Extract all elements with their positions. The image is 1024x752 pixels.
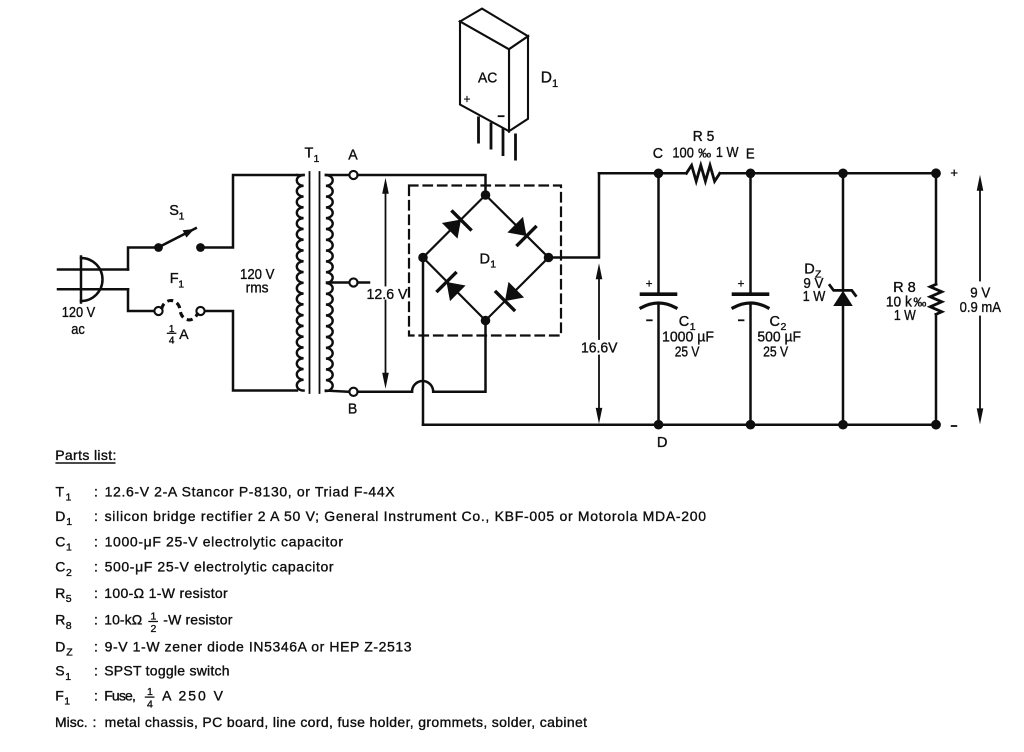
svg-text:25 V: 25 V (675, 344, 700, 361)
svg-text:F: F (55, 687, 64, 703)
svg-text:4: 4 (169, 335, 175, 346)
svg-text:D: D (55, 638, 65, 654)
svg-text:12.6 V: 12.6 V (367, 286, 409, 303)
svg-text::: : (94, 484, 98, 500)
svg-text:500-μF 25-V electrolytic capac: 500-μF 25-V electrolytic capacitor (105, 559, 334, 575)
svg-text::: : (94, 612, 98, 628)
fuse F1 (154, 301, 204, 320)
svg-text:1: 1 (151, 611, 157, 623)
svg-text:silicon bridge rectifier 2 A 5: silicon bridge rectifier 2 A 50 V; Gener… (105, 508, 707, 524)
svg-text:1 W: 1 W (716, 144, 739, 161)
svg-text:1: 1 (552, 78, 558, 90)
svg-text:1: 1 (64, 696, 70, 708)
wire bridge left node to bottom rail (422, 258, 425, 425)
svg-text:Misc.: Misc. (55, 714, 88, 730)
svg-text:ac: ac (71, 321, 85, 338)
svg-text::: : (94, 663, 98, 679)
diode D1d bottom-right (496, 282, 524, 310)
node D dot (654, 420, 664, 430)
zener diode Dz (830, 173, 856, 424)
svg-text:E: E (746, 147, 755, 163)
node C (654, 169, 664, 179)
parts list (55, 447, 706, 730)
wire B to hop (358, 391, 412, 394)
svg-text:25 V: 25 V (763, 344, 789, 361)
svg-text:R: R (55, 612, 65, 628)
svg-text:R: R (55, 585, 65, 601)
diode D1c bottom-left (438, 273, 466, 301)
svg-text:C: C (653, 146, 663, 162)
transformer T1 primary coil (297, 175, 304, 391)
node top of R8 (931, 168, 941, 178)
resistor R5 (686, 165, 719, 181)
svg-text:AC: AC (478, 70, 497, 87)
svg-text:12.6-V 2-A Stancor P-8130, or: 12.6-V 2-A Stancor P-8130, or Triad F-44… (105, 484, 396, 500)
svg-text:1: 1 (65, 671, 71, 683)
svg-text:1000-μF 25-V electrolytic capa: 1000-μF 25-V electrolytic capacitor (105, 533, 344, 549)
center tap (327, 281, 349, 284)
svg-text:+: + (950, 165, 958, 180)
svg-text:Fuse,: Fuse, (104, 687, 136, 703)
svg-text:2: 2 (151, 623, 157, 635)
svg-text:16.6V: 16.6V (581, 340, 618, 357)
transformer core (309, 172, 311, 393)
svg-text:-W resistor: -W resistor (163, 612, 232, 628)
svg-text:B: B (348, 402, 357, 418)
wire hop to bridge bottom (433, 321, 485, 392)
package pins (479, 117, 516, 161)
switch S1 (154, 228, 205, 252)
svg-text::: : (94, 533, 98, 549)
label - output (951, 425, 957, 427)
svg-text:1: 1 (66, 542, 72, 554)
capacitor C1 (641, 173, 676, 424)
svg-text:1: 1 (179, 211, 185, 223)
label - C1 (646, 319, 652, 321)
wire switch to primary top (205, 175, 297, 248)
ac plug P1 (58, 257, 128, 303)
top rail (599, 172, 686, 175)
svg-text:100: 100 (672, 144, 694, 161)
svg-text:C: C (55, 533, 65, 549)
svg-text:S: S (169, 203, 179, 219)
9V output measure arrow (977, 175, 984, 425)
12.6V measure arrow (382, 178, 389, 389)
diode D1a top-left (442, 212, 471, 239)
svg-text:1: 1 (66, 492, 72, 504)
svg-text:+: + (738, 278, 745, 290)
node bottom of R8 (931, 420, 941, 430)
svg-text:1 W: 1 W (803, 288, 826, 305)
svg-text:1: 1 (147, 686, 153, 698)
svg-text:5: 5 (66, 593, 72, 605)
svg-text::: : (93, 714, 97, 730)
svg-text:100-Ω 1-W resistor: 100-Ω 1-W resistor (104, 585, 228, 601)
svg-text:1 W: 1 W (894, 307, 916, 324)
svg-text:C: C (55, 559, 65, 575)
svg-text:D: D (55, 508, 65, 524)
svg-text::: : (94, 585, 98, 601)
svg-text:8: 8 (66, 620, 72, 632)
svg-text:metal chassis, PC board, line: metal chassis, PC board, line cord, fuse… (105, 714, 588, 730)
svg-text:2: 2 (66, 567, 72, 579)
capacitor C2 (733, 173, 768, 424)
svg-text:+: + (646, 278, 653, 290)
svg-text::: : (94, 687, 98, 703)
svg-text:9-V 1-W zener diode IN5346A or: 9-V 1-W zener diode IN5346A or HEP Z-251… (105, 638, 412, 654)
svg-text:S: S (55, 663, 64, 679)
svg-text:Parts list:: Parts list: (55, 447, 116, 463)
svg-text:Z: Z (66, 647, 73, 659)
svg-text:D: D (541, 70, 552, 87)
svg-text:+: + (464, 94, 471, 106)
label - C2 (738, 319, 744, 321)
bridge D1 dashed outline (409, 186, 561, 336)
node top of Dz (838, 169, 848, 179)
svg-text::: : (94, 508, 98, 524)
svg-text:1: 1 (314, 153, 320, 165)
node bottom of C2 (746, 420, 756, 430)
svg-text:10-kΩ: 10-kΩ (104, 612, 142, 628)
svg-text:SPST toggle switch: SPST toggle switch (104, 663, 229, 679)
svg-text:R 5: R 5 (693, 128, 715, 145)
wire hop (412, 381, 433, 392)
svg-text::: : (94, 638, 98, 654)
svg-text:A: A (179, 326, 189, 342)
svg-text:120 V: 120 V (62, 304, 96, 321)
svg-text:T: T (56, 484, 65, 500)
diode D1b top-right (507, 217, 535, 245)
wire fuse to primary bottom (205, 311, 297, 391)
wire plug to switch (128, 248, 154, 270)
label 1/4 A fuse rating (169, 324, 175, 347)
node E (746, 169, 756, 179)
svg-text:1: 1 (490, 259, 496, 271)
svg-text:0.9 mA: 0.9 mA (960, 299, 1002, 316)
resistor R8 (930, 173, 942, 424)
svg-text::: : (94, 559, 98, 575)
terminal B (326, 391, 350, 392)
16.6V measure arrow (596, 263, 603, 424)
wire A to bridge top (358, 175, 486, 195)
bridge node dots (481, 190, 491, 200)
svg-text:rms: rms (246, 280, 269, 297)
label - package (498, 115, 505, 117)
svg-text:‰: ‰ (698, 145, 711, 160)
svg-text:1: 1 (66, 516, 72, 528)
svg-text:T: T (305, 146, 314, 162)
bridge rectifier package D1 3D box (460, 9, 528, 132)
svg-text:1: 1 (178, 279, 184, 291)
transformer T1 secondary coil (326, 175, 333, 391)
bridge arms (423, 195, 549, 321)
node bottom of Dz (838, 420, 848, 430)
svg-text:A: A (348, 147, 358, 163)
svg-text:4: 4 (147, 698, 153, 710)
wire bridge right node to top rail (553, 173, 599, 257)
svg-text:D: D (480, 252, 490, 268)
wire plug to fuse (128, 289, 154, 311)
terminal A (297, 174, 304, 176)
bottom rail (423, 423, 936, 426)
svg-text:D: D (657, 435, 668, 451)
